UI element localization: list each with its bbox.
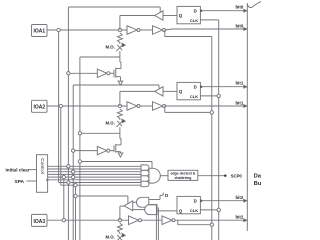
svg-text:bit2: bit2 — [236, 195, 244, 200]
svg-text:M.O.: M.O. — [105, 120, 114, 125]
wire R2 to drain — [119, 127, 121, 138]
node IOA2 pull-up — [118, 104, 121, 107]
transistor Q1 (output NMOS) — [116, 68, 121, 70]
wire control line 1 — [48, 165, 141, 167]
svg-text:D: D — [165, 193, 169, 198]
node harness g — [74, 184, 77, 187]
wire M.O. feed row1 — [80, 56, 120, 58]
buffer B2 (pad driver row2) — [155, 87, 163, 96]
AND gate A5 (combiner) — [149, 168, 160, 183]
node harness f — [62, 175, 65, 178]
svg-text:D: D — [194, 8, 197, 13]
svg-text:Dat: Dat — [254, 174, 261, 180]
wire FF2 Q to A7 — [157, 210, 177, 212]
node enable row2 — [72, 149, 75, 152]
wire FF0 CLK — [200, 19, 218, 21]
svg-text:IOA2: IOA2 — [33, 105, 45, 111]
wire FF1 Q to buffer — [163, 90, 177, 92]
control block — [37, 155, 48, 193]
wire IOA1 pad — [47, 29, 127, 31]
svg-text:Initial clear: Initial clear — [6, 168, 30, 173]
inverter G8 (input buffer row3) — [142, 219, 163, 221]
svg-text:CLK: CLK — [190, 208, 198, 213]
wire enable rail row3 — [75, 185, 77, 240]
inverter G3 (input buffer row1) — [140, 29, 153, 31]
AND gate A2 — [141, 170, 149, 175]
wire IOA2 tap down — [60, 106, 62, 185]
node M.O. feed row2 — [78, 132, 81, 135]
inverter G5 (input buffer row2) — [127, 102, 137, 111]
wire rail x218.7 (write strobe) — [218, 20, 220, 240]
wire IOA3 pad — [47, 219, 129, 221]
wire control line 3 — [48, 171, 141, 173]
node enable row1 — [67, 72, 70, 75]
svg-text:D: D — [194, 198, 197, 203]
svg-text:Bus: Bus — [254, 181, 261, 187]
flip-flop FF2 (bit2) — [177, 196, 200, 213]
node harness e — [67, 181, 70, 184]
wire buffer B2 output to pad — [120, 90, 155, 92]
ground VSS row2 — [118, 153, 123, 157]
wire output-enable row3 — [76, 195, 128, 197]
svg-text:SPA: SPA — [15, 179, 25, 185]
wire initial clear — [30, 169, 37, 171]
mask option switch row3 — [119, 233, 121, 235]
AND gate A3 — [141, 176, 149, 182]
node harness d — [72, 175, 75, 178]
AND gate A7 — [145, 205, 157, 215]
node IOA3 pull-up — [118, 219, 121, 222]
svg-text:IOA1: IOA1 — [33, 29, 45, 35]
inverter G7 (input buffer row3) — [129, 216, 139, 225]
svg-text:D: D — [194, 84, 197, 89]
wire A6 input D — [159, 195, 161, 199]
inverter G6 (input buffer row2) — [140, 105, 153, 107]
wire SPA — [27, 180, 37, 182]
node IOA1 tap — [57, 28, 60, 31]
wire output-enable row1 — [68, 6, 160, 8]
buffer B3 (pad driver row3) — [124, 201, 133, 211]
mask option switch row2 — [119, 119, 121, 121]
wire control line 4 — [48, 173, 141, 175]
wire FF0 Q to buffer — [163, 15, 177, 17]
wire M.O. line row3 — [80, 161, 152, 163]
resistor R3 (pull-up) — [118, 223, 123, 233]
wire IOA2 pad — [47, 105, 127, 107]
data bus rail — [246, 3, 248, 231]
wire A7 output — [133, 209, 146, 211]
wire IOA1 tap line — [59, 182, 141, 184]
svg-text:bit1: bit1 — [236, 81, 244, 86]
wire IOA2 tap line — [61, 184, 141, 186]
wire buffer B3 output to pad — [120, 205, 124, 207]
inverter G4 (gate driver row2) — [73, 150, 97, 152]
node harness a — [78, 160, 81, 163]
svg-text:Q: Q — [179, 89, 183, 94]
svg-text:Q: Q — [179, 209, 183, 214]
ground VSS row1 — [118, 81, 123, 85]
wire read row2 feedback — [164, 106, 166, 112]
node feedback row2 — [210, 111, 213, 114]
wire output-enable row2 — [73, 84, 159, 86]
resistor R1 (pull-up) — [118, 33, 123, 43]
wire enable rail row1 — [67, 7, 69, 240]
transistor Q2 (output NMOS) — [116, 144, 121, 146]
svg-text:SCP0: SCP0 — [231, 173, 243, 178]
wire buffer B1 output to pad — [120, 15, 155, 17]
inverter G1 (gate driver row1) — [68, 72, 97, 74]
wire read row3 to bus — [175, 219, 244, 221]
node FF1 CLK junction — [217, 94, 220, 97]
svg-text:chattering: chattering — [174, 176, 191, 180]
svg-text:bit0: bit0 — [236, 23, 244, 28]
wire IOA3 tap up — [63, 177, 65, 220]
AND gate A4 — [141, 181, 149, 186]
svg-text:M.O.: M.O. — [105, 44, 114, 49]
wire read row2 to bus — [166, 105, 245, 107]
wire A6 output — [133, 201, 137, 203]
AND gate A1 — [141, 165, 149, 171]
wire IOA1 tap down — [58, 30, 60, 183]
wire read row1 to bus — [166, 29, 245, 30]
inverter G2 (input buffer row1) — [127, 26, 137, 35]
node feedback row3 — [210, 223, 213, 226]
wire FF0 D to bus — [200, 10, 202, 12]
node enable row3 — [74, 194, 77, 197]
edge detect box — [168, 170, 198, 180]
wire FF1 D to bus — [200, 86, 202, 88]
pad box IOA3 — [32, 214, 48, 226]
wire R1 to drain — [119, 51, 121, 62]
node IOA2 tap — [59, 104, 62, 107]
resistor R2 (pull-up) — [118, 109, 123, 119]
svg-text:CLK: CLK — [190, 94, 198, 99]
mask option switch row1 — [119, 43, 121, 45]
svg-text:M.O.: M.O. — [105, 235, 114, 240]
label D net — [160, 194, 163, 196]
wire A7 input 1 down — [157, 207, 159, 240]
wire control line 5 — [48, 176, 141, 178]
wire A6 input 2 down — [149, 204, 157, 206]
wire enable rail row2 — [72, 85, 74, 240]
svg-text:CLK: CLK — [190, 18, 198, 23]
node IOA1 pull-up — [118, 28, 121, 31]
wire rail x211.8 (input feedback) — [211, 37, 213, 240]
node harness b — [67, 165, 70, 168]
wire M.O. feed row2 — [80, 132, 120, 134]
node harness c — [72, 170, 75, 173]
svg-text:Control: Control — [39, 158, 45, 173]
wire read row3 feedback — [177, 220, 179, 225]
node FF2 CLK junction — [217, 208, 220, 211]
wire M.O. feed rail — [79, 57, 81, 240]
wire FF2 D to bus — [200, 200, 202, 202]
wire cluster output — [160, 175, 168, 177]
pad box IOA1 — [32, 25, 48, 37]
wire FF1 CLK — [200, 95, 218, 97]
wire read row1 feedback — [164, 30, 166, 37]
svg-text:bit0: bit0 — [236, 4, 244, 9]
svg-text:bit1: bit1 — [236, 101, 244, 106]
wire control line 6 — [48, 179, 141, 181]
wire control line 2 — [48, 168, 141, 170]
svg-text:Q: Q — [179, 13, 183, 18]
wire FF2 CLK — [200, 209, 218, 211]
svg-text:bit2: bit2 — [236, 214, 244, 219]
svg-text:IOA3: IOA3 — [33, 219, 45, 225]
wire SCP0 — [198, 175, 225, 177]
flip-flop FF1 (bit1) — [177, 82, 200, 99]
node IOA3 tap — [62, 219, 65, 222]
pad box IOA2 — [32, 100, 48, 112]
buffer B1 (pad driver row1) — [155, 11, 163, 20]
data bus continuation curve — [247, 2, 261, 8]
AND gate A6 — [137, 197, 149, 207]
flip-flop FF0 (bit0) — [177, 6, 200, 23]
